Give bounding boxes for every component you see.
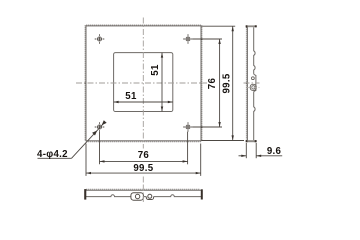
label 4-phi4.2 leader underline — [38, 157, 72, 159]
dimension 9.6 — [239, 155, 283, 157]
side view right edge with dimples and emboss step — [254, 27, 256, 140]
svg-text:99.5: 99.5 — [221, 73, 232, 93]
extension line plate bottom-left corner — [85, 144, 87, 176]
hole bottom-left — [95, 122, 105, 132]
horizontal center line — [76, 82, 207, 84]
dimension 76 horizontal — [100, 160, 188, 162]
bottom view second hole pocket outline — [146, 197, 153, 200]
bottom view stadium hole — [135, 194, 139, 198]
side view left edge serration — [245, 28, 247, 140]
side view crossing center line — [244, 82, 260, 84]
label 4-phi4.2 leader diagonal — [72, 122, 106, 158]
svg-text:51: 51 — [150, 64, 161, 76]
bottom view bottom edge with dimples — [86, 195, 201, 197]
bottom view left end cap — [84, 189, 86, 200]
front view outer edge serration ticks — [85, 25, 202, 142]
side view feature center line — [246, 86, 261, 88]
side view left edge — [246, 27, 248, 140]
front view inner square cutout — [114, 53, 173, 112]
side view small hole upper — [252, 77, 255, 80]
dimension 99.5 horizontal — [86, 172, 201, 174]
extension line plate bottom-right corner — [200, 144, 202, 176]
side view emboss stadium — [250, 84, 256, 90]
dimension 51 vertical (inner square height) — [161, 53, 163, 112]
extension line bottom-right hole to 76 dim — [187, 132, 189, 165]
dimension 76 vertical — [218, 39, 220, 127]
bottom view top edge serration — [87, 188, 201, 190]
leader arrowhead toward hole (lower) — [92, 131, 97, 136]
hole bottom-right — [183, 122, 193, 132]
extension line bottom-right hole to 76 dim — [193, 126, 222, 128]
hole top-right — [183, 34, 193, 44]
bottom view center line — [142, 185, 144, 204]
bottom view second hole — [148, 194, 152, 198]
svg-text:76: 76 — [138, 150, 150, 161]
svg-text:9.6: 9.6 — [267, 146, 282, 157]
side view small hole lower — [252, 86, 255, 89]
extension line plate bottom edge to side view — [202, 140, 245, 142]
side view bottom flange cap — [246, 140, 257, 142]
vertical center line — [142, 18, 144, 149]
bottom view right end cap — [201, 189, 203, 199]
extension lines for 9.6 — [245, 143, 247, 158]
svg-text:76: 76 — [207, 78, 218, 90]
front view outer plate edge — [86, 26, 201, 141]
extension line bottom-left hole to 76 dim — [99, 132, 101, 165]
extension line plate top edge to 99.5 dim — [202, 25, 236, 27]
dimension 99.5 vertical — [232, 26, 234, 140]
svg-text:51: 51 — [125, 91, 137, 102]
bottom view emboss stadium — [131, 193, 144, 201]
hole top-left — [95, 34, 105, 44]
center line between views — [142, 177, 144, 185]
svg-text:4-φ4.2: 4-φ4.2 — [37, 149, 68, 160]
svg-text:99.5: 99.5 — [133, 163, 153, 174]
side view top flange cap — [246, 25, 257, 27]
extension line top-right hole to 76 dim — [193, 38, 222, 40]
leader arrowhead toward hole (upper) — [102, 120, 107, 125]
bottom view top edge — [86, 189, 201, 191]
dimension 51 horizontal (inner square width) — [114, 101, 173, 103]
